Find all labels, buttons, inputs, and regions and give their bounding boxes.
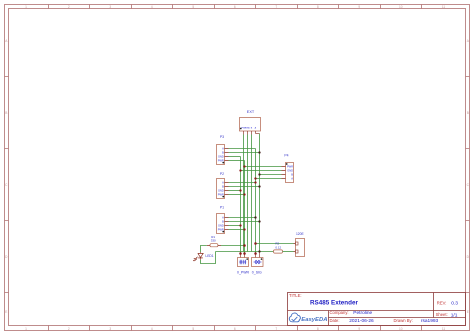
wire A bus to 120E pin1: [256, 243, 294, 245]
svg-text:7: 7: [275, 5, 277, 9]
wire P4-A: [256, 178, 282, 180]
wire P3-A: [229, 148, 256, 150]
svg-text:5: 5: [192, 5, 194, 9]
wire bus A (vertical x=255.5): [255, 149, 257, 254]
resistor R2: [274, 242, 294, 253]
wire EXT pin1 vertical: [243, 135, 245, 252]
svg-text:GND: GND: [218, 154, 224, 158]
svg-text:RS485 Extender: RS485 Extender: [310, 300, 358, 307]
svg-text:7: 7: [275, 327, 277, 331]
wire bus B (vertical x=259.5): [259, 134, 261, 252]
svg-text:8: 8: [317, 327, 319, 331]
resistor R1: [207, 235, 221, 247]
svg-text:GND: GND: [218, 188, 224, 192]
svg-text:LED1: LED1: [205, 254, 213, 258]
wire EXT pin3 vertical: [251, 135, 253, 252]
svg-text:10: 10: [399, 327, 403, 331]
wire P2-PWR: [229, 194, 245, 196]
wire P3-B: [229, 152, 260, 154]
wire R1 left to LED: [201, 246, 207, 253]
svg-text:4: 4: [151, 5, 153, 9]
svg-text:0_PWR: 0_PWR: [237, 270, 250, 274]
svg-text:GND: GND: [245, 128, 250, 130]
wire P4-GND: [241, 170, 282, 172]
wire bottom bus: [216, 251, 274, 253]
svg-text:9: 9: [358, 327, 360, 331]
svg-text:B: B: [5, 111, 7, 115]
svg-text:EasyEDA: EasyEDA: [301, 317, 327, 323]
junction dots: [239, 151, 260, 254]
LED LED1: [193, 252, 214, 261]
wire P3-PWR: [229, 160, 245, 162]
svg-text:5: 5: [192, 327, 194, 331]
svg-text:B: B: [467, 111, 469, 115]
EXT pin stubs: [244, 131, 256, 135]
svg-text:1: 1: [25, 5, 27, 9]
wire EXT pin2 vertical: [247, 135, 249, 252]
svg-text:P4: P4: [284, 154, 288, 158]
svg-text:P2: P2: [220, 172, 224, 176]
wire P4-B: [260, 174, 282, 176]
svg-text:120E: 120E: [296, 232, 305, 236]
svg-text:GND: GND: [218, 223, 224, 227]
svg-text:1/1: 1/1: [451, 312, 458, 318]
TVS 0_SIG: [252, 252, 264, 275]
svg-text:2021-06-26: 2021-06-26: [349, 318, 374, 324]
wire P2-GND: [229, 190, 241, 192]
svg-text:11: 11: [442, 5, 446, 9]
svg-text:0_SIG: 0_SIG: [252, 270, 262, 274]
svg-text:330: 330: [211, 239, 216, 243]
svg-text:TITLE:: TITLE:: [289, 293, 302, 298]
svg-text:E: E: [467, 310, 469, 314]
svg-text:11: 11: [442, 327, 446, 331]
svg-text:1: 1: [25, 327, 27, 331]
svg-text:PWR: PWR: [287, 165, 293, 169]
wire P1-B: [229, 221, 260, 223]
svg-text:Sheet:: Sheet:: [436, 312, 448, 317]
svg-text:A: A: [222, 146, 224, 150]
svg-text:rsa1993: rsa1993: [421, 318, 439, 324]
svg-text:EXT: EXT: [247, 110, 255, 114]
svg-text:B: B: [222, 219, 224, 223]
wire P4-PWR: [245, 166, 282, 168]
wire P2-B: [229, 186, 260, 188]
wire P1-PWR: [229, 229, 245, 231]
connector P3: [217, 135, 229, 164]
wire P3-GND: [229, 156, 241, 158]
svg-text:3: 3: [109, 5, 111, 9]
svg-text:A: A: [291, 177, 293, 181]
svg-text:P1: P1: [220, 205, 224, 209]
connector P2: [217, 172, 229, 199]
svg-text:Petroline: Petroline: [353, 310, 372, 316]
svg-text:B: B: [222, 184, 224, 188]
svg-text:0.12: 0.12: [275, 245, 281, 249]
wire P2-A: [229, 182, 256, 184]
svg-text:0.3: 0.3: [451, 300, 458, 306]
svg-text:8: 8: [317, 5, 319, 9]
wire P1-A: [229, 217, 256, 219]
svg-text:A: A: [222, 215, 224, 219]
wire bus PWR (vertical x=244.5): [244, 161, 246, 254]
svg-text:GND: GND: [287, 169, 293, 173]
svg-text:Date:: Date:: [330, 318, 340, 323]
svg-text:3: 3: [109, 327, 111, 331]
title block: [288, 293, 466, 326]
svg-text:6: 6: [234, 5, 236, 9]
connector 120E: [294, 232, 305, 257]
svg-text:P3: P3: [220, 135, 224, 139]
connector EXT: [240, 110, 261, 135]
svg-text:Drawn By:: Drawn By:: [394, 318, 413, 323]
svg-text:6: 6: [234, 327, 236, 331]
svg-text:A: A: [222, 180, 224, 184]
svg-text:10: 10: [399, 5, 403, 9]
svg-text:4: 4: [151, 327, 153, 331]
svg-text:B: B: [222, 150, 224, 154]
wire LED cathode loop: [201, 252, 216, 264]
wire EXT pin4 jog to B bus: [256, 133, 260, 135]
wire bus GND (vertical x=240.5): [240, 157, 242, 254]
EasyEDA logo: [289, 313, 327, 323]
svg-text:B: B: [291, 173, 293, 177]
svg-text:E: E: [5, 310, 7, 314]
svg-text:2: 2: [68, 327, 70, 331]
TVS 0_PWR: [237, 254, 250, 275]
connector P1: [217, 205, 229, 233]
svg-text:9: 9: [358, 5, 360, 9]
connector P4: [282, 154, 294, 183]
svg-text:REV:: REV:: [437, 300, 447, 305]
svg-text:Company:: Company:: [330, 310, 349, 315]
wire R1 right to PWR bus: [221, 245, 245, 247]
wire P1-GND: [229, 225, 241, 227]
svg-text:2: 2: [68, 5, 70, 9]
